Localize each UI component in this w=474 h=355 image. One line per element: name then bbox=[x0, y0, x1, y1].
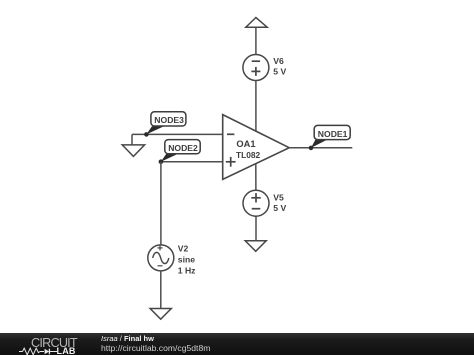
wire arrow to V6 bbox=[255, 27, 257, 54]
wire V2 to ground bbox=[160, 271, 162, 309]
svg-text:V2: V2 bbox=[178, 243, 189, 253]
wire V6 to op-amp V+ bbox=[255, 81, 257, 132]
voltage source V5 bbox=[243, 190, 269, 216]
svg-text:NODE3: NODE3 bbox=[154, 115, 184, 125]
ground G2 bbox=[245, 241, 266, 252]
node NODE1 junction dot bbox=[309, 146, 314, 151]
footer title Israa / Final hw bbox=[101, 334, 154, 343]
CircuitLab logo wordmark CIRCUIT bbox=[31, 336, 77, 350]
ground G3 bbox=[150, 309, 171, 320]
node NODE1 label bbox=[314, 125, 350, 139]
node NODE2 flag pointer bbox=[161, 154, 179, 162]
node NODE1 flag pointer bbox=[311, 140, 328, 148]
CircuitLab logo resistor-diode glyph bbox=[19, 347, 57, 355]
wire minus net vertical to ground bbox=[131, 134, 133, 145]
label V5 5V bbox=[273, 193, 286, 214]
svg-text:V5: V5 bbox=[273, 193, 284, 203]
svg-text:OA1: OA1 bbox=[236, 139, 255, 149]
node NODE3 flag pointer bbox=[146, 126, 164, 134]
wire minus net horizontal bbox=[132, 133, 223, 135]
op-amp plus input symbol bbox=[226, 157, 236, 167]
footer url bbox=[101, 343, 210, 353]
svg-text:5 V: 5 V bbox=[273, 203, 286, 213]
power flag arrow top bbox=[246, 18, 267, 28]
wire plus net horizontal bbox=[161, 161, 223, 163]
svg-text:NODE1: NODE1 bbox=[318, 129, 348, 139]
node NODE3 label bbox=[151, 112, 186, 126]
wire op-amp V- to V5 bbox=[255, 164, 257, 191]
svg-text:5 V: 5 V bbox=[273, 67, 286, 77]
footer bar bbox=[0, 333, 474, 355]
svg-text:NODE2: NODE2 bbox=[168, 143, 198, 153]
svg-text:TL082: TL082 bbox=[236, 150, 261, 160]
wire op-amp output to NODE1 bbox=[289, 147, 352, 149]
svg-text:V6: V6 bbox=[273, 56, 284, 66]
ground G1 bbox=[122, 145, 144, 157]
CircuitLab logo wordmark LAB bbox=[57, 346, 76, 355]
voltage source V6 bbox=[243, 55, 269, 81]
op-amp minus input symbol bbox=[227, 133, 234, 135]
node NODE3 junction dot bbox=[144, 132, 149, 137]
wire NODE2 down to V2 bbox=[160, 162, 162, 245]
label OA1 TL082 bbox=[236, 139, 261, 160]
op-amp OA1 triangle bbox=[223, 115, 290, 180]
label V6 5V bbox=[273, 56, 286, 77]
node NODE2 label bbox=[165, 140, 200, 154]
wire V5 to ground bbox=[255, 216, 257, 241]
svg-text:1 Hz: 1 Hz bbox=[178, 265, 196, 275]
node NODE2 junction dot bbox=[159, 159, 164, 164]
svg-text:sine: sine bbox=[178, 255, 195, 265]
label V2 sine 1 Hz bbox=[178, 243, 196, 275]
voltage source V2 sine bbox=[148, 245, 174, 271]
